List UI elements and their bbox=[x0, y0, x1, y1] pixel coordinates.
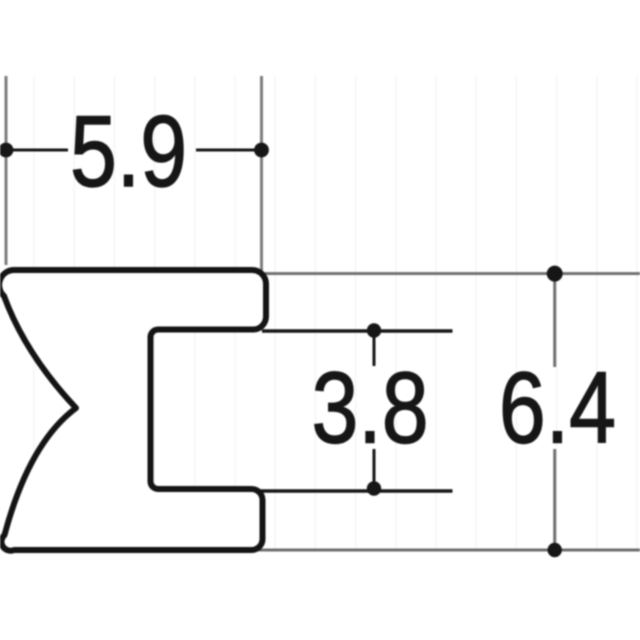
extension line 5.9 left bbox=[5, 76, 8, 265]
dimension line 3.8 bbox=[373, 331, 376, 489]
reference line 6.4 top bbox=[263, 272, 640, 275]
reference line 6.4 bottom bbox=[258, 549, 640, 552]
extension line 3.8 top bbox=[262, 329, 453, 332]
dot 5.9 left bbox=[0, 143, 13, 158]
dot 6.4 top bbox=[547, 266, 563, 282]
faint grid bbox=[34, 76, 637, 550]
svg-text:6.4: 6.4 bbox=[499, 351, 616, 464]
dot 5.9 right bbox=[254, 143, 269, 158]
extension line 3.8 bottom bbox=[256, 489, 453, 492]
svg-text:5.9: 5.9 bbox=[70, 95, 187, 208]
dimension line 6.4 bbox=[553, 274, 556, 550]
dot 3.8 top bbox=[367, 323, 381, 337]
dot 6.4 bottom bbox=[548, 543, 562, 557]
profile outline (rubber seal cross-section) bbox=[0, 270, 266, 551]
dimension line 5.9 bbox=[6, 149, 262, 152]
dot 3.8 bottom bbox=[367, 481, 381, 495]
svg-text:3.8: 3.8 bbox=[311, 351, 428, 464]
extension line 5.9 right bbox=[260, 76, 263, 277]
